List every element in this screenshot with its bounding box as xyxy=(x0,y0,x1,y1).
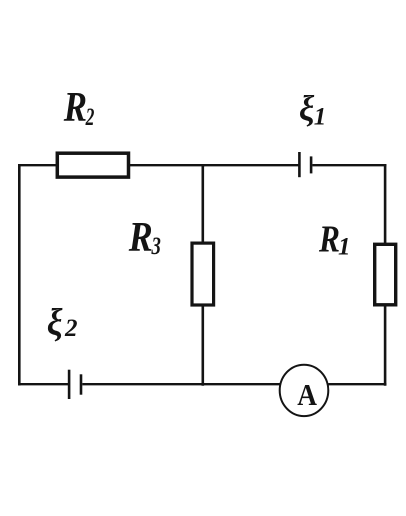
wire ammeter to bottom-right corner xyxy=(328,383,386,385)
svg-text:R: R xyxy=(318,218,340,261)
battery xi1 short plate xyxy=(310,156,313,173)
svg-text:A: A xyxy=(297,379,317,413)
wire bottom-left to battery xi2 xyxy=(18,383,68,385)
svg-text:R: R xyxy=(63,85,87,131)
wire battery xi1 to top-right corner xyxy=(312,164,386,166)
resistor R2 xyxy=(57,153,128,177)
wire middle branch upper xyxy=(202,166,205,244)
label xi1 xyxy=(299,89,326,131)
wire battery xi2 to ammeter xyxy=(82,383,280,385)
wire right vertical lower xyxy=(384,306,387,386)
wire right vertical upper xyxy=(384,164,387,244)
svg-text:3: 3 xyxy=(151,231,161,259)
svg-text:1: 1 xyxy=(338,233,351,260)
wire top-left to R2 xyxy=(18,164,58,166)
svg-text:2: 2 xyxy=(85,103,95,131)
ammeter A xyxy=(280,365,329,416)
battery xi2 short plate xyxy=(80,374,83,394)
resistor R1 xyxy=(375,244,396,304)
wire middle branch lower xyxy=(202,306,205,386)
svg-text:ξ: ξ xyxy=(299,89,315,129)
svg-text:2: 2 xyxy=(64,315,78,342)
svg-text:1: 1 xyxy=(314,104,327,131)
svg-text:R: R xyxy=(128,214,153,260)
battery xi1 long plate xyxy=(298,152,301,177)
wire left vertical xyxy=(18,164,21,386)
label xi2 xyxy=(47,300,78,343)
svg-text:ξ: ξ xyxy=(47,300,63,343)
label R3 xyxy=(128,214,161,260)
wire R2 to battery xi1 xyxy=(129,164,299,166)
resistor R3 xyxy=(192,243,214,305)
label R1 xyxy=(318,218,350,261)
label R2 xyxy=(63,85,95,131)
battery xi2 long plate xyxy=(68,370,71,399)
node T junction of middle branch with top wire xyxy=(202,164,205,167)
